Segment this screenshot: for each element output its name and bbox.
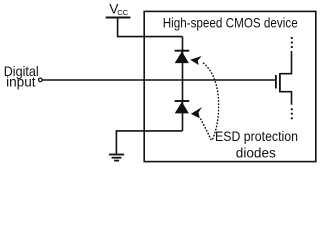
svg-text:ESD protection: ESD protection	[215, 129, 298, 144]
svg-text:CC: CC	[117, 8, 128, 17]
svg-text:diodes: diodes	[236, 146, 276, 161]
svg-text:input: input	[6, 75, 36, 90]
svg-text:High-speed CMOS device: High-speed CMOS device	[163, 15, 298, 30]
